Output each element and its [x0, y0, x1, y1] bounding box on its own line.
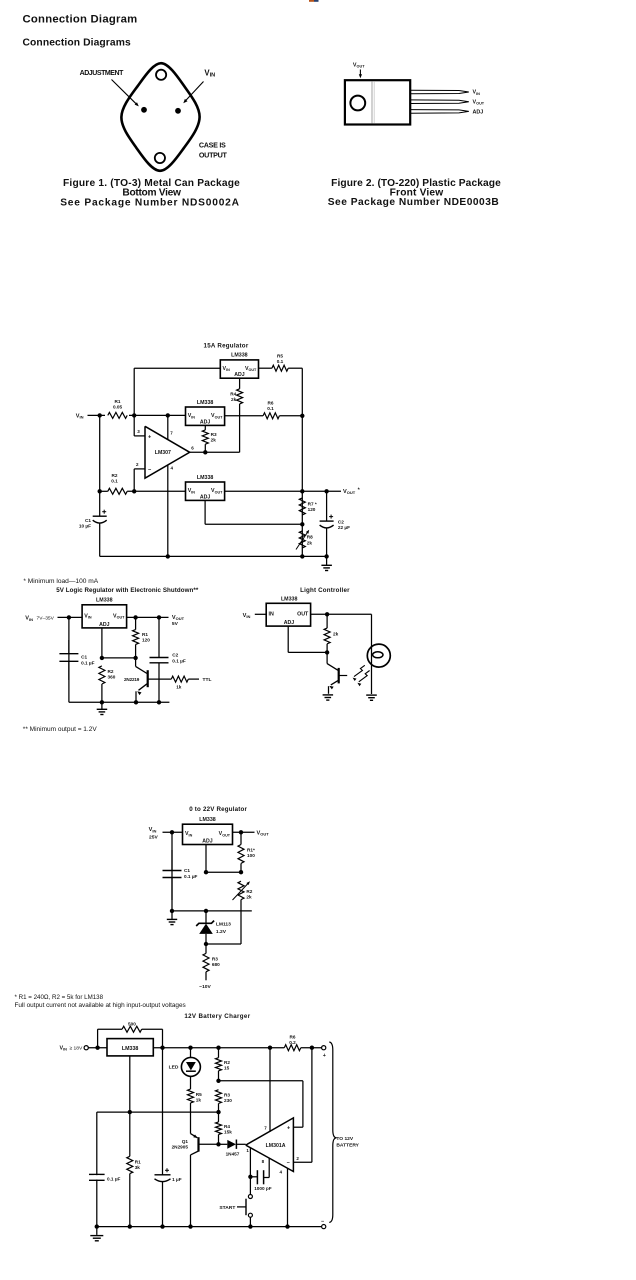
arrow VIN to pin — [186, 82, 204, 101]
ground — [171, 911, 173, 919]
svg-text:R2: R2 — [246, 889, 252, 894]
resistor R1* 100 — [240, 832, 242, 844]
ground — [101, 702, 103, 709]
svg-text:See Package Number NDS0002A: See Package Number NDS0002A — [60, 197, 240, 208]
svg-text:5V: 5V — [172, 621, 179, 627]
svg-text:Light Controller: Light Controller — [300, 587, 350, 594]
svg-text:15: 15 — [224, 1066, 230, 1071]
svg-text:VOUT: VOUT — [473, 100, 485, 106]
TO-3 bottom mounting hole — [155, 153, 165, 163]
light arrows — [354, 665, 365, 676]
svg-text:R6: R6 — [290, 1035, 296, 1040]
svg-text:R2: R2 — [224, 1060, 230, 1065]
svg-text:Connection Diagram: Connection Diagram — [23, 14, 138, 26]
svg-text:LM338: LM338 — [281, 597, 298, 603]
0.1uF branch — [96, 1112, 98, 1227]
resistor R7* 120 — [299, 498, 305, 515]
svg-text:−: − — [321, 1219, 324, 1225]
svg-text:ADJ: ADJ — [234, 372, 244, 378]
ground — [96, 1227, 98, 1235]
svg-text:ADJ: ADJ — [200, 494, 210, 500]
TO-3 ADJUSTMENT pin dot — [141, 107, 147, 113]
svg-text:C1: C1 — [184, 868, 190, 873]
resistor R2 15 — [218, 1048, 220, 1058]
ground under transistor — [323, 694, 334, 696]
svg-text:500: 500 — [128, 1021, 136, 1026]
wire R2 line to U4 — [100, 490, 108, 492]
svg-text:3: 3 — [137, 429, 140, 434]
LED branch — [190, 1048, 192, 1058]
svg-text:1: 1 — [246, 1148, 249, 1153]
pin 4 — [287, 1168, 289, 1226]
svg-text:** Minimum output = 1.2V: ** Minimum output = 1.2V — [23, 726, 98, 733]
svg-text:230: 230 — [224, 1098, 232, 1103]
svg-text:22 µF: 22 µF — [338, 525, 350, 530]
resistor R1 120 — [135, 617, 137, 629]
wire U4 ADJ to R7/R8 junction — [204, 500, 206, 524]
svg-text:2k: 2k — [231, 397, 237, 402]
capacitor C1 0.1uF — [68, 640, 70, 654]
svg-text:680: 680 — [212, 962, 220, 967]
svg-text:R6: R6 — [268, 401, 274, 406]
capacitor C1 10uF — [99, 491, 101, 516]
resistor R4 15k — [216, 1122, 222, 1135]
svg-text:2N2905: 2N2905 — [172, 1145, 189, 1150]
op-amp U3 LM307 — [145, 426, 190, 478]
svg-text:VIN: VIN — [243, 613, 251, 619]
TO-3 top mounting hole — [156, 70, 166, 80]
svg-text:ADJ: ADJ — [202, 839, 212, 845]
svg-text:VOUT: VOUT — [211, 413, 223, 419]
svg-text:* Minimum load—100 mA: * Minimum load—100 mA — [23, 578, 98, 585]
capacitor C2 0.1uF — [158, 617, 160, 657]
wire R5 to Q1 emitter (crossover adj line) — [190, 1103, 192, 1134]
resistor R2 0.1 — [108, 488, 127, 494]
svg-text:VOUT: VOUT — [245, 366, 257, 372]
svg-text:START: START — [219, 1205, 235, 1211]
TO-220 pin 1 — [410, 90, 469, 94]
svg-text:C2: C2 — [338, 519, 344, 524]
svg-text:1.2V: 1.2V — [216, 929, 227, 935]
svg-text:5V Logic Regulator with Electr: 5V Logic Regulator with Electronic Shutd… — [56, 587, 199, 594]
bottom rail — [97, 1226, 322, 1228]
svg-text:25V: 25V — [149, 835, 158, 841]
wire left rail — [99, 415, 101, 491]
ground under lamp — [366, 694, 377, 696]
svg-text:7V–35V: 7V–35V — [37, 616, 55, 622]
diode 1N457 — [219, 1143, 228, 1145]
svg-text:2k: 2k — [246, 894, 252, 899]
svg-text:+: + — [148, 434, 152, 440]
svg-text:2k: 2k — [307, 540, 313, 545]
wire ADJ down/right — [287, 626, 289, 652]
svg-text:10 µF: 10 µF — [79, 524, 91, 529]
svg-text:VOUT: VOUT — [219, 831, 231, 837]
svg-text:LM338: LM338 — [122, 1046, 139, 1052]
pin 8 and 1000pF — [268, 1158, 270, 1177]
svg-text:BATTERY: BATTERY — [336, 1143, 359, 1149]
svg-text:0.1: 0.1 — [111, 479, 118, 484]
rheostat R2 2k — [238, 881, 244, 899]
svg-text:Full output current not availa: Full output current not available at hig… — [15, 1002, 186, 1009]
input terminal — [84, 1046, 88, 1050]
wire U1 out to R5 — [259, 367, 272, 369]
brace TO 12V BATTERY — [329, 1042, 336, 1223]
regulator LM338 — [107, 1039, 153, 1056]
svg-text:VOUT: VOUT — [343, 489, 356, 495]
svg-text:VIN: VIN — [149, 827, 157, 833]
TO-220 mounting hole — [350, 96, 365, 111]
svg-text:−: − — [148, 467, 152, 473]
svg-text:15k: 15k — [224, 1130, 232, 1135]
wire ADJ down — [129, 1056, 131, 1112]
svg-text:See Package Number NDE0003B: See Package Number NDE0003B — [328, 197, 500, 208]
input wire — [163, 831, 183, 833]
svg-text:VIN: VIN — [25, 616, 33, 622]
wire to top regulator — [133, 368, 135, 415]
resistor R5 1k — [190, 1076, 192, 1089]
svg-text:LM113: LM113 — [216, 922, 231, 928]
svg-text:Q1: Q1 — [182, 1139, 189, 1144]
svg-text:LED: LED — [169, 1065, 179, 1071]
resistor 500 bypass — [97, 1029, 99, 1048]
svg-text:R2: R2 — [108, 669, 114, 674]
resistor R4 2k (U1 ADJ) — [239, 378, 241, 389]
svg-text:VOUT: VOUT — [257, 830, 270, 836]
svg-text:LM301A: LM301A — [266, 1143, 286, 1149]
svg-text:0.1 µF: 0.1 µF — [172, 659, 186, 664]
svg-text:C2: C2 — [172, 653, 178, 658]
rheostat R8 2k — [299, 531, 305, 548]
svg-text:VOUT: VOUT — [113, 613, 125, 619]
op-amp U2 LM301A — [246, 1118, 294, 1172]
svg-text:R1: R1 — [115, 399, 121, 404]
svg-text:* R1 = 240Ω, R2 = 5k for LM138: * R1 = 240Ω, R2 = 5k for LM138 — [15, 994, 104, 1001]
pin 1 — [249, 1148, 251, 1195]
svg-text:1k: 1k — [176, 685, 182, 690]
svg-text:0.1 µF: 0.1 µF — [184, 874, 198, 879]
svg-text:R5: R5 — [277, 354, 283, 359]
resistor R3 2k (U2 ADJ) — [204, 425, 206, 430]
svg-text:R1: R1 — [142, 632, 148, 637]
svg-text:*: * — [358, 488, 361, 494]
wire R6 to + terminal — [301, 1047, 322, 1049]
wire ADJ down/right — [205, 845, 207, 873]
svg-text:1000 pF: 1000 pF — [254, 1186, 272, 1191]
pin 3 + input — [133, 415, 135, 436]
svg-text:ADJ: ADJ — [200, 419, 210, 425]
pin 6 output wire — [190, 451, 240, 453]
svg-text:1k: 1k — [196, 1097, 202, 1102]
svg-text:6: 6 — [191, 445, 194, 450]
svg-text:120: 120 — [308, 507, 316, 512]
svg-text:VIN: VIN — [76, 414, 84, 420]
svg-text:ADJ: ADJ — [473, 109, 484, 115]
regulator LM338 — [82, 605, 127, 628]
wire U2 out through R6 — [225, 415, 264, 417]
svg-text:VIN: VIN — [185, 831, 193, 837]
wire + input sense — [219, 1080, 303, 1082]
svg-text:ADJ: ADJ — [99, 622, 109, 628]
svg-text:OUTPUT: OUTPUT — [199, 150, 228, 159]
resistor R1 0.05 — [108, 412, 127, 418]
left rail — [68, 617, 70, 702]
TO-3 package body (bottom view) — [121, 63, 199, 171]
svg-text:ADJUSTMENT: ADJUSTMENT — [80, 70, 125, 77]
svg-text:VIN: VIN — [473, 90, 481, 96]
input wire — [58, 616, 83, 618]
input wire — [255, 613, 266, 615]
svg-text:3k: 3k — [135, 1165, 141, 1170]
resistor R6 0.1 — [263, 413, 279, 419]
ground line — [172, 910, 252, 912]
svg-text:OUT: OUT — [297, 612, 309, 618]
svg-text:CASE IS: CASE IS — [199, 141, 226, 150]
svg-text:IN: IN — [269, 612, 274, 618]
TO-3 VIN pin dot — [175, 108, 181, 114]
wire R4 down to op-amp output (crossover) — [239, 404, 241, 452]
svg-text:R5: R5 — [196, 1092, 202, 1097]
svg-text:VOUT: VOUT — [353, 63, 365, 69]
svg-text:Connection Diagrams: Connection Diagrams — [23, 38, 131, 49]
svg-text:+: + — [323, 1053, 326, 1059]
svg-text:R3: R3 — [211, 432, 217, 437]
capacitor 1uF — [162, 1048, 164, 1175]
resistor R3 680 — [205, 944, 207, 953]
svg-text:R1: R1 — [135, 1159, 141, 1164]
svg-text:−: − — [287, 1160, 290, 1166]
wire right rail — [301, 368, 303, 556]
TO-220 pin 2 — [410, 100, 469, 104]
svg-text:R3: R3 — [224, 1093, 230, 1098]
svg-text:0.05: 0.05 — [113, 405, 123, 410]
resistor R3 230 — [216, 1090, 222, 1104]
svg-text:2: 2 — [136, 462, 139, 467]
svg-text:0.1 µF: 0.1 µF — [81, 661, 95, 666]
TO-220 tab line — [371, 81, 373, 123]
regulator U4 LM338 (bottom) — [186, 482, 225, 500]
output wire to VOUT — [233, 831, 255, 833]
output rail — [153, 1047, 284, 1049]
svg-text:2k: 2k — [333, 631, 339, 636]
arrow ADJUSTMENT to pin — [112, 80, 137, 105]
capacitor C2 22uF — [326, 491, 328, 521]
capacitor C1 0.1uF — [171, 850, 173, 871]
svg-text:1 µF: 1 µF — [172, 1177, 182, 1182]
resistor R1 3k — [129, 1112, 131, 1156]
svg-text:VIN: VIN — [204, 68, 215, 78]
TO-220 package body — [345, 80, 410, 124]
svg-text:LM307: LM307 — [155, 450, 171, 456]
svg-text:1N457: 1N457 — [226, 1152, 240, 1157]
svg-text:≥ 18V: ≥ 18V — [70, 1046, 83, 1052]
svg-text:C1: C1 — [85, 518, 91, 523]
lamp — [367, 644, 390, 667]
svg-text:120: 120 — [142, 637, 150, 642]
svg-text:C1: C1 — [81, 655, 87, 660]
svg-text:R4: R4 — [224, 1124, 230, 1129]
LED — [181, 1057, 200, 1076]
transistor Q1 2N2905 — [191, 1134, 198, 1138]
svg-text:LM338: LM338 — [197, 400, 214, 406]
svg-text:R7 *: R7 * — [308, 501, 317, 506]
switch START — [248, 1195, 252, 1199]
output wire — [311, 613, 372, 615]
svg-text:VIN: VIN — [60, 1046, 68, 1052]
svg-text:R4: R4 — [230, 391, 236, 396]
phototransistor — [326, 652, 328, 663]
svg-text:+: + — [287, 1126, 290, 1132]
svg-text:VIN: VIN — [84, 613, 92, 619]
svg-text:8: 8 — [262, 1159, 265, 1164]
zener LM113 1.2V — [205, 911, 207, 923]
svg-text:0.2: 0.2 — [289, 1040, 296, 1045]
regulator LM338 — [183, 824, 233, 844]
svg-text:R3: R3 — [212, 957, 218, 962]
svg-text:100: 100 — [247, 853, 255, 858]
svg-text:LM338: LM338 — [197, 475, 214, 481]
TO-220 pin 3 — [410, 110, 469, 114]
regulator LM338 — [266, 603, 310, 626]
base wire — [199, 1143, 219, 1145]
regulator U2 LM338 (middle) — [186, 407, 225, 425]
output wire to VOUT 5V — [127, 616, 169, 618]
svg-text:7: 7 — [170, 431, 173, 436]
wire U4 out to VOUT — [225, 490, 341, 492]
svg-text:7: 7 — [264, 1125, 267, 1130]
svg-text:12V Battery Charger: 12V Battery Charger — [184, 1013, 250, 1020]
lamp branch wire — [371, 614, 373, 694]
resistor R2 360 — [99, 666, 105, 684]
pin 7 — [167, 415, 169, 439]
svg-text:4: 4 — [171, 465, 174, 470]
transistor Q 2N2219 — [135, 658, 137, 667]
svg-text:15A Regulator: 15A Regulator — [204, 342, 249, 349]
svg-text:ADJ: ADJ — [284, 620, 294, 626]
svg-text:VOUT: VOUT — [172, 615, 185, 621]
page-top logo fragment — [309, 0, 314, 2]
base resistor 1k to TTL — [148, 678, 172, 680]
left rail — [171, 832, 173, 911]
svg-text:VIN: VIN — [188, 488, 196, 494]
svg-text:R2: R2 — [112, 473, 118, 478]
pin 7 — [269, 1048, 271, 1132]
wire R5 to right rail — [288, 367, 302, 369]
wire VIN input — [88, 414, 186, 416]
pin 2 - input — [134, 468, 145, 470]
svg-text:TTL: TTL — [203, 677, 212, 683]
svg-text:0.1: 0.1 — [277, 359, 284, 364]
svg-text:R1*: R1* — [247, 848, 255, 853]
svg-text:360: 360 — [108, 674, 116, 679]
wire ADJ down and across — [101, 628, 103, 658]
svg-text:2N2219: 2N2219 — [124, 677, 140, 682]
adj line across — [97, 1111, 219, 1113]
svg-text:LM338: LM338 — [199, 817, 216, 823]
pin 4 — [167, 465, 169, 557]
svg-text:LM338: LM338 — [231, 353, 248, 359]
svg-text:LM338: LM338 — [96, 598, 113, 604]
svg-text:2k: 2k — [211, 437, 217, 442]
ground — [326, 556, 328, 565]
svg-text:TO 12V: TO 12V — [336, 1136, 354, 1142]
pin 2 - input — [293, 1161, 312, 1163]
svg-text:−10V: −10V — [199, 984, 211, 990]
svg-text:0.1 µF: 0.1 µF — [107, 1176, 121, 1181]
svg-text:0.1: 0.1 — [267, 406, 274, 411]
wire R2 down, left to diode bottom — [240, 900, 242, 944]
regulator U1 LM338 (top) — [220, 360, 258, 378]
resistor 2k — [326, 614, 328, 628]
svg-text:4: 4 — [279, 1169, 282, 1174]
svg-text:VIN: VIN — [223, 366, 231, 372]
bottom rail — [100, 555, 327, 557]
svg-text:2: 2 — [296, 1156, 299, 1161]
resistor R5 0.1 — [272, 365, 288, 371]
svg-text:VIN: VIN — [188, 413, 196, 419]
svg-text:VOUT: VOUT — [211, 488, 223, 494]
svg-text:0 to 22V Regulator: 0 to 22V Regulator — [189, 806, 247, 813]
svg-text:R8: R8 — [307, 535, 313, 540]
resistor R6 0.2 — [284, 1045, 301, 1051]
